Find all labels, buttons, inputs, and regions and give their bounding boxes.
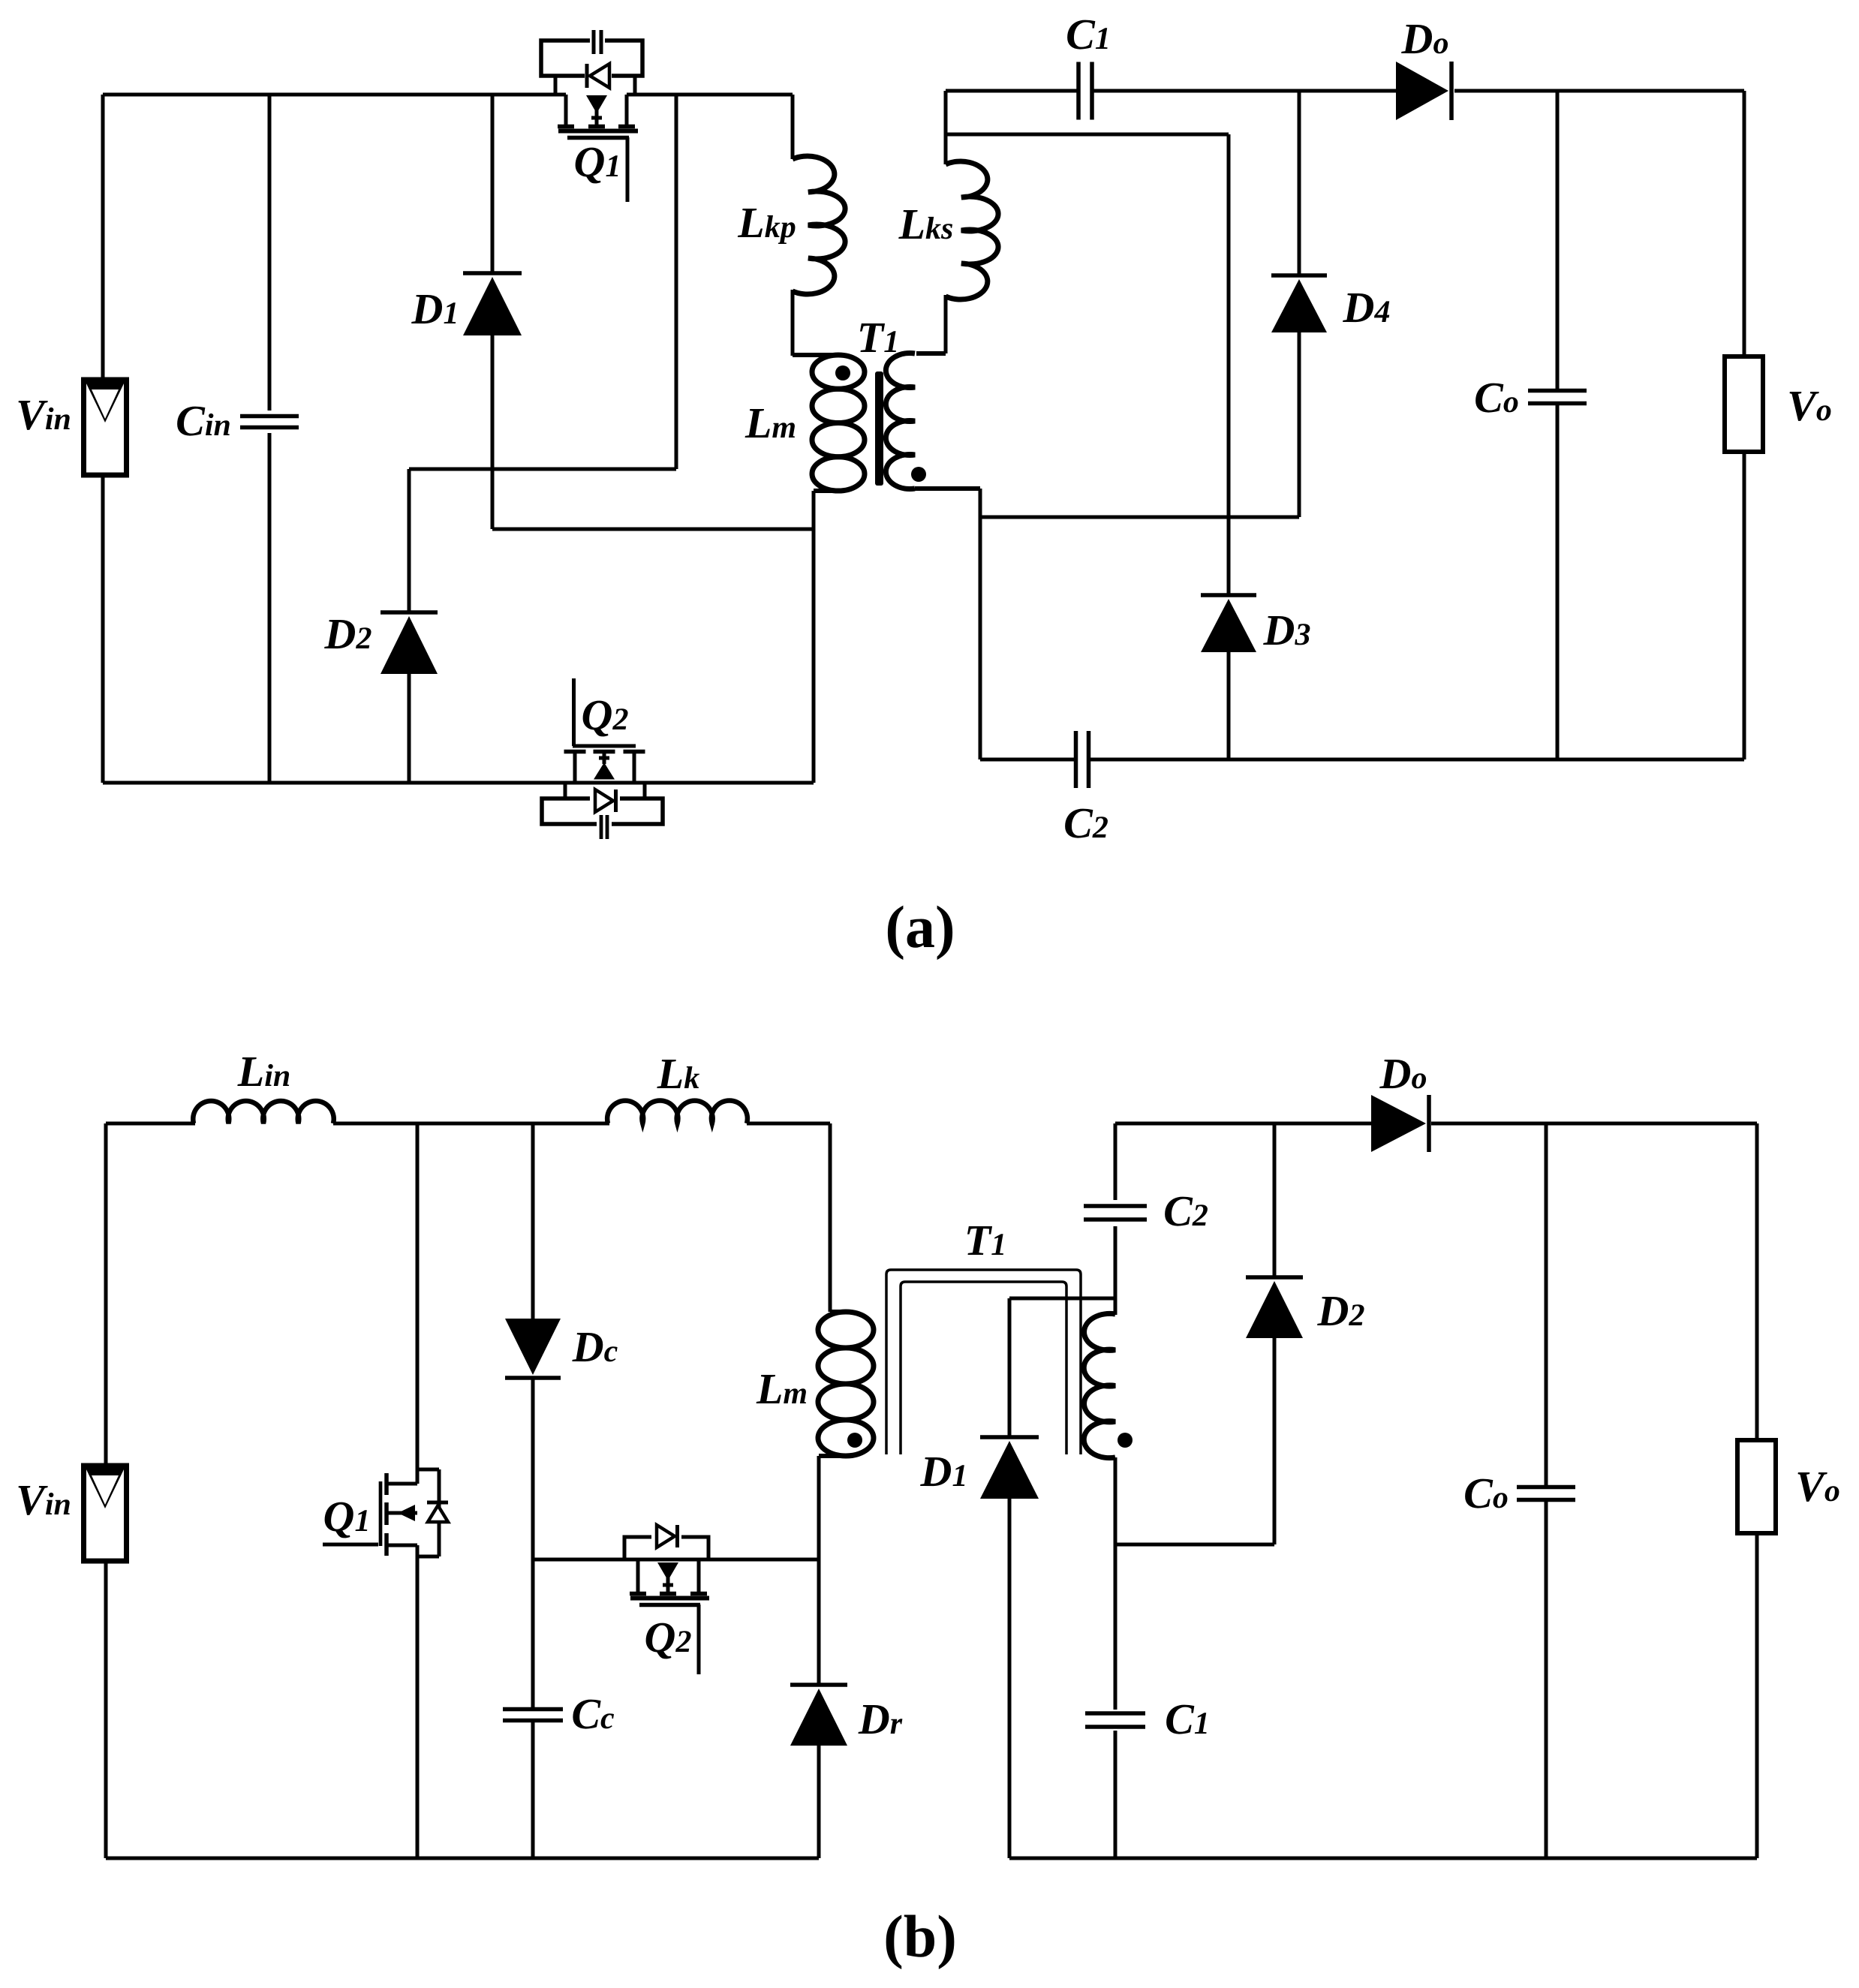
svg-text:(a): (a) — [885, 895, 955, 961]
svg-text:(b): (b) — [883, 1904, 957, 1970]
